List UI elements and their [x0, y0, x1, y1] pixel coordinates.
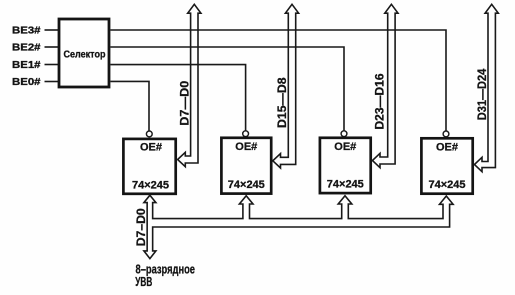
- wire stub BE2# input: [45, 46, 59, 48]
- inverting bubble OE# U2: [243, 131, 249, 137]
- label 8-разрядное УВВ: [135, 261, 195, 289]
- inverting bubble OE# U1: [146, 131, 152, 137]
- inverting bubble OE# U3: [341, 131, 347, 137]
- svg-text:74×245: 74×245: [228, 179, 265, 191]
- svg-text:74×245: 74×245: [327, 179, 364, 191]
- svg-text:OE#: OE#: [140, 141, 162, 153]
- transceiver U3 74x245: [320, 138, 371, 193]
- svg-text:Селектор: Селектор: [64, 50, 106, 61]
- svg-text:D7–D0: D7–D0: [134, 208, 148, 246]
- svg-text:D31—D24: D31—D24: [475, 68, 489, 120]
- wire BE3# net: selector to U4 OE#: [110, 30, 446, 131]
- svg-text:D7—D0: D7—D0: [178, 80, 192, 125]
- svg-text:74×245: 74×245: [132, 180, 169, 192]
- svg-text:74×245: 74×245: [428, 179, 465, 191]
- svg-text:OE#: OE#: [334, 141, 356, 153]
- svg-text:УВВ: УВВ: [135, 275, 152, 289]
- svg-text:D15—D8: D15—D8: [275, 77, 289, 128]
- block-arrow bus D31-D24 to CPU (arrow 4): [474, 4, 498, 171]
- svg-text:BE0#: BE0#: [12, 77, 41, 88]
- svg-text:D23—D16: D23—D16: [373, 73, 387, 129]
- transceiver U4 74x245: [421, 138, 472, 193]
- block-arrow bus D15-D8 to CPU (arrow 2): [273, 4, 299, 168]
- wire BE0# net: selector to U1 OE#: [110, 81, 149, 131]
- wire BE1# net: selector to U2 OE#: [110, 65, 245, 131]
- block-arrow bus D7-D0 to CPU (arrow 1): [178, 4, 201, 166]
- inverting bubble OE# U4: [443, 131, 449, 137]
- svg-text:BE3#: BE3#: [12, 26, 41, 37]
- wire stub BE3# input: [45, 29, 59, 31]
- wire stub BE0# input: [45, 81, 59, 83]
- wire stub BE1# input: [45, 64, 59, 66]
- transceiver U1 74x245: [123, 139, 175, 194]
- bottom data bus channel with branch arrows into U1-U4 and UVV drop: [144, 195, 453, 258]
- wire BE2# net: selector to U3 OE#: [110, 47, 344, 131]
- block-arrow bus D23-D16 to CPU (arrow 3): [372, 4, 398, 167]
- svg-text:OE#: OE#: [235, 141, 257, 153]
- svg-text:BE1#: BE1#: [12, 60, 41, 71]
- svg-text:OE#: OE#: [436, 142, 458, 154]
- transceiver U2 74x245: [221, 138, 271, 194]
- selector box U5: [59, 19, 109, 87]
- svg-text:BE2#: BE2#: [12, 43, 41, 54]
